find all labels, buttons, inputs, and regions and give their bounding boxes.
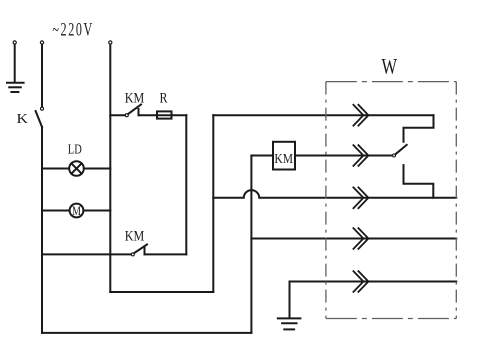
wire upper throw step bbox=[404, 115, 434, 142]
contact KM1 (normally open) bbox=[125, 105, 141, 117]
contact KM2 (normally open) bbox=[131, 245, 147, 256]
wire lamp row bbox=[42, 168, 110, 170]
connector chevron pin 4 bbox=[353, 228, 368, 249]
coil KM bbox=[273, 142, 295, 170]
resistor R bbox=[157, 111, 172, 118]
switch K bbox=[36, 107, 44, 127]
svg-text:~220V: ~220V bbox=[52, 20, 94, 41]
wire vertical feeder (x=213) bbox=[212, 115, 214, 292]
connector chevron pin 1 bbox=[353, 105, 368, 126]
wire ground branch vertical bbox=[14, 45, 16, 82]
wire K branch upper bbox=[41, 45, 43, 107]
supply terminal circle (ground branch) bbox=[13, 41, 16, 44]
svg-text:R: R bbox=[160, 90, 168, 106]
wire supply vertical 2 bbox=[109, 45, 111, 292]
svg-text:LD: LD bbox=[68, 142, 82, 157]
wire coil return vertical (x=251) bbox=[250, 156, 252, 333]
ground symbol (bottom earth) bbox=[278, 318, 301, 329]
wire line D (to W pin 4) bbox=[251, 238, 456, 240]
wire K branch lower (left vertical) bbox=[41, 127, 43, 333]
connector chevron pin 2 bbox=[353, 145, 368, 166]
ground symbol (top-left earth) bbox=[7, 83, 24, 92]
enclosure W (dash-dot box) bbox=[326, 82, 456, 319]
connector chevron pin 5 bbox=[353, 271, 368, 292]
motor M bbox=[70, 204, 84, 218]
wire line A (to W pin 1) bbox=[213, 114, 433, 116]
wire contact2 row left bbox=[42, 253, 131, 255]
wire R branch left stub bbox=[110, 114, 125, 116]
wire contact1 to resistor and on to corner bbox=[139, 114, 187, 116]
wire outer bottom bar bbox=[42, 332, 251, 334]
svg-text:KM: KM bbox=[125, 229, 145, 245]
wire line C (to W pin 3) with hop bbox=[213, 190, 456, 198]
svg-text:KM: KM bbox=[274, 152, 293, 167]
wire ground drop bbox=[289, 282, 291, 319]
wire coil feed left bbox=[251, 155, 273, 157]
svg-text:M: M bbox=[72, 204, 81, 218]
supply terminal circle (K branch) bbox=[40, 41, 43, 44]
wire line E (to W pin 5) bbox=[290, 281, 457, 283]
lamp LD bbox=[69, 161, 84, 176]
wire inner bottom bar bbox=[110, 291, 213, 293]
wire lower throw step bbox=[404, 165, 434, 198]
connector chevron pin 3 bbox=[353, 187, 368, 208]
svg-text:W: W bbox=[382, 54, 398, 79]
wire line B (to W pin 2) bbox=[295, 155, 392, 157]
wire motor row bbox=[42, 210, 110, 212]
switch in W (pivot and blade) bbox=[393, 145, 407, 157]
wire contact2 row right bbox=[145, 253, 187, 255]
wire R branch drop bbox=[185, 115, 187, 254]
supply terminal circle (phase 2) bbox=[109, 41, 112, 44]
svg-text:K: K bbox=[17, 112, 29, 127]
